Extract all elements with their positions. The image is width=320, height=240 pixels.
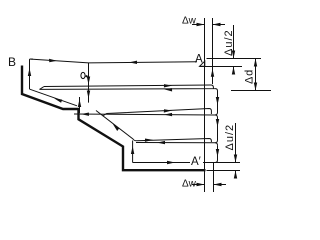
arrow down dim Δd xyxy=(254,83,257,91)
contour offset diagonal 1 xyxy=(30,89,77,106)
arrow up on climb line xyxy=(78,99,81,107)
arrow down on connector V2 xyxy=(216,119,219,127)
svg-text:B: B xyxy=(8,55,16,69)
contour offset diagonal 2 xyxy=(96,111,137,141)
dim Δu/2 bottom lower stub xyxy=(235,171,237,179)
extension line vertical through A and A-prime xyxy=(204,18,206,192)
pass 1 chamfer xyxy=(40,87,45,90)
arrow down dim Δu/2 top xyxy=(232,51,235,59)
arrow right on A-prime line xyxy=(167,161,175,164)
arrow down upper on plunge line xyxy=(87,77,90,85)
workpiece profile thick outline xyxy=(22,66,206,171)
arrow up on B finish line xyxy=(28,68,31,76)
arrow right on pass 3 return xyxy=(145,139,153,142)
svg-text:Δu/2: Δu/2 xyxy=(223,29,235,56)
arrow down lower on plunge line xyxy=(87,91,90,99)
arrow up-left on contour offset diagonal 1 xyxy=(54,98,62,103)
connector V1 xyxy=(215,91,218,115)
arrow down on connector V1 xyxy=(216,97,219,105)
first cut depth reference line xyxy=(231,90,271,92)
dim Δw top line left xyxy=(192,24,205,26)
toolpath corner at B xyxy=(30,59,34,62)
arrow down on connector V3 xyxy=(216,149,219,157)
bottom face reference line xyxy=(207,170,241,172)
dim Δu/2 bottom line xyxy=(235,123,237,163)
extension vertical bottom right xyxy=(213,163,215,193)
pass 2 return line xyxy=(107,109,212,115)
svg-text:Δd: Δd xyxy=(244,69,256,84)
retract line to A sloped xyxy=(89,62,198,63)
dim Δu/2 top lower stub xyxy=(233,67,235,75)
arrow up dim Δd xyxy=(254,59,257,67)
tool nose triangle at A xyxy=(200,61,205,66)
connector V3 xyxy=(215,145,218,162)
arrow right on toolpath from B xyxy=(49,59,57,62)
connector V2 xyxy=(215,118,218,143)
svg-text:A: A xyxy=(195,54,203,66)
arrow up on contour offset vertical xyxy=(131,146,134,154)
dim Δw bottom line left xyxy=(192,184,205,186)
svg-text:A′: A′ xyxy=(191,156,201,168)
arrow left on pass 1 cut xyxy=(164,88,172,91)
plunge line with feed symbol xyxy=(88,63,90,103)
arrow up on extension stub xyxy=(211,69,214,77)
arrow up dim Δu/2 bottom lower xyxy=(234,171,237,179)
pass 2 cut line xyxy=(74,114,218,118)
arrow right on pass 1 return xyxy=(164,84,172,87)
svg-text:Δw: Δw xyxy=(182,16,197,27)
A-prime level line left of label xyxy=(133,162,190,164)
contour offset vertical at bottom xyxy=(132,141,134,163)
arrow right dim Δw bottom xyxy=(197,183,205,186)
A level reference line xyxy=(207,58,262,60)
svg-text:Δu/2: Δu/2 xyxy=(224,124,236,151)
pass 3 cut line xyxy=(136,143,218,146)
arrow left on pass 3 cut xyxy=(157,141,165,144)
svg-text:Δw: Δw xyxy=(182,179,197,190)
arrow left on pass 2 cut xyxy=(164,113,172,116)
arrow left on pass 2 cut left part xyxy=(81,113,89,116)
pass 1 return line xyxy=(44,85,213,89)
A-prime level line right of label xyxy=(203,162,240,164)
dim Δd line xyxy=(255,59,257,91)
feed symbol dot xyxy=(86,75,88,77)
vertical finish line at B xyxy=(29,61,31,89)
arrow down dim Δu/2 bottom xyxy=(234,155,237,163)
pass 2 chamfer xyxy=(103,114,107,117)
dim Δw top line right xyxy=(213,24,226,26)
extension line vertical right top xyxy=(212,18,214,84)
arrow up dim Δu/2 top lower xyxy=(232,67,235,75)
arrow left dim Δw bottom xyxy=(214,183,222,186)
feed symbol ellipse xyxy=(81,72,85,78)
arrow right dim Δw top xyxy=(197,23,205,26)
pass 3 return line xyxy=(137,139,212,143)
climb line at step xyxy=(79,97,81,113)
arrow left on retract line to A xyxy=(129,61,137,64)
arrow left dim Δw top xyxy=(213,23,221,26)
pass 1 cut line xyxy=(40,89,218,91)
dim Δu/2 top line xyxy=(233,25,235,59)
dim Δw bottom line right xyxy=(214,184,227,186)
arrow right on pass 2 return xyxy=(164,109,172,112)
toolpath line from B sloping down xyxy=(31,59,89,63)
profile top reference line xyxy=(200,66,243,68)
arrow up-left on contour offset diagonal 2 xyxy=(113,124,120,132)
